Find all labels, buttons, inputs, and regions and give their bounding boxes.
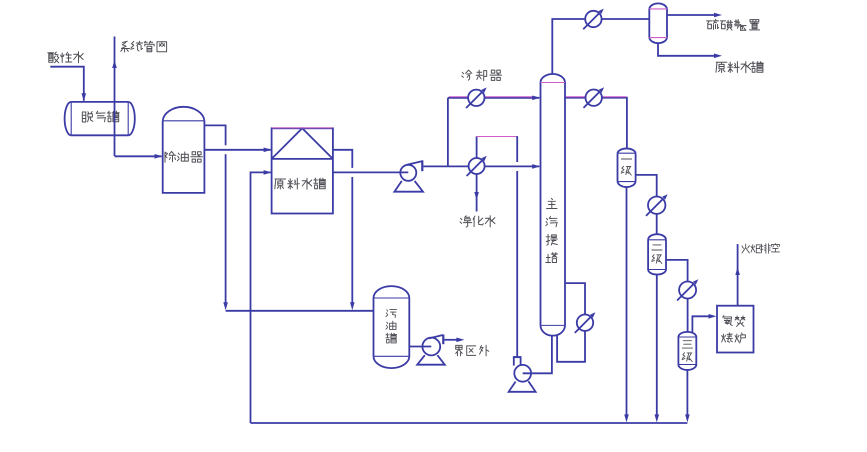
pipe first to second stage (636, 175, 657, 196)
pipe tee riser to cooler line (447, 98, 449, 167)
pipe second stage drain (656, 275, 658, 418)
label 脱气罐 (82, 112, 93, 123)
label 污油罐 (386, 310, 397, 318)
pipe recycle riser into tank (251, 172, 271, 423)
label 冷却器 (462, 70, 472, 80)
heat exchanger E1 冷却器 (468, 90, 484, 106)
pipe flare vent (737, 244, 739, 306)
pipe degasser bottoms to deoiler (115, 155, 162, 157)
pipe column side vapor to first stage (blue+magenta) (565, 97, 585, 99)
label 原料水罐 (275, 179, 286, 189)
arrow feed into column (532, 164, 540, 169)
vessel 原料水罐 feed water tank (272, 128, 333, 213)
arrow cooled feed into column (532, 96, 540, 101)
label 除油器 (165, 152, 176, 163)
pipe reboiler circuit (565, 283, 585, 314)
vessel 脱气罐 degasser drum (71, 101, 128, 103)
vessel 三级 third stage (677, 337, 679, 365)
arrow down purified water (474, 192, 479, 200)
pipe deoiler to feed tank (204, 149, 270, 151)
label 系统管网 (121, 41, 130, 52)
arrow down into slop header (223, 302, 228, 310)
arrow to feed water tank (714, 54, 722, 59)
heat exchanger E5 (648, 197, 665, 214)
pipe purified water outlet (476, 174, 478, 211)
pipe P1 discharge to column feed (423, 165, 468, 167)
pipe third stage gas to incinerator (692, 316, 711, 333)
pipe tank suction to pump P1 (333, 171, 408, 173)
pipe cooler line to column top (blue+magenta) (448, 97, 468, 99)
label 氨焚 (723, 316, 733, 326)
label 主汽提塔 (547, 198, 557, 208)
pipe slop oil outlet to pump P2 (409, 346, 431, 348)
arrow to sulfur unit (714, 13, 722, 18)
heat exchanger E4 (586, 90, 602, 106)
pipe bottom collection header (251, 422, 688, 424)
pipe second to third stage (666, 260, 688, 281)
label 净化水 (460, 216, 472, 227)
heat exchanger E7 reboiler (577, 315, 593, 331)
pipe acid water feed (50, 67, 84, 101)
label 烧炉 (722, 333, 733, 342)
arrow into degasser top (82, 93, 87, 101)
vessel 一级 first stage (617, 153, 619, 181)
pipe deoiler top outlet to slop header (with crossover gap) (204, 125, 225, 145)
pipe slop oil header (226, 310, 374, 312)
label 火炬排空 (742, 244, 749, 253)
label 酸性水 (48, 52, 59, 63)
arrow into deoiler (155, 154, 163, 159)
pipe column overhead to reflux drum (552, 19, 585, 74)
label 一级 (621, 158, 631, 160)
label 二级 (652, 245, 662, 250)
magenta accent on tank roof (272, 127, 332, 129)
pipe P2 discharge battery limit (445, 339, 460, 341)
label 三级 (682, 341, 692, 348)
arrow up flare (735, 267, 740, 275)
arrow down drain 1 (624, 414, 629, 422)
pipe system gas network riser (114, 37, 116, 157)
pump P1 feed pump (400, 165, 416, 181)
label 界区外 (456, 345, 463, 356)
pipe hot stripped water to exchanger (magenta top) (476, 136, 478, 158)
heat exchanger E2 feed/effluent (469, 158, 485, 174)
vessel 二级 second stage (647, 240, 649, 270)
vessel 污油罐 slop oil drum (373, 298, 375, 356)
vessel 回流罐 reflux drum (648, 9, 650, 38)
label 原料水罐 (destination) (716, 62, 727, 72)
column 主汽提塔 main stripper (540, 83, 542, 326)
pipe tank top outlet down to slop header (with crossover gap) (333, 150, 352, 168)
arrow to battery limit (456, 338, 464, 343)
heat exchanger E3 overhead condenser (585, 11, 601, 27)
label 硫磺装置 (707, 19, 719, 29)
arrow into incinerator (709, 314, 717, 319)
arrow down drain 3 (685, 414, 690, 422)
pipe acid gas to sulfur unit (667, 14, 716, 16)
arrow down drain 2 (655, 414, 660, 422)
arrow up on gas line (112, 60, 117, 68)
arrow into feed tank lower (264, 170, 272, 175)
pipe third stage drain (686, 370, 688, 417)
box 氨焚烧炉 ammonia incinerator (717, 306, 754, 353)
pipe drum bottoms to feed tank (658, 44, 716, 56)
heat exchanger E6 (679, 282, 696, 299)
pump P2 slop oil pump (422, 338, 440, 356)
arrow down into slop header right (350, 302, 355, 310)
pipe column bottoms to pump P3 (523, 336, 552, 374)
pump P3 column bottoms pump (514, 365, 531, 382)
pipe first stage drain (626, 188, 628, 418)
arrow into feed tank upper (264, 148, 272, 153)
vessel 除油器 deoiler (163, 121, 205, 193)
